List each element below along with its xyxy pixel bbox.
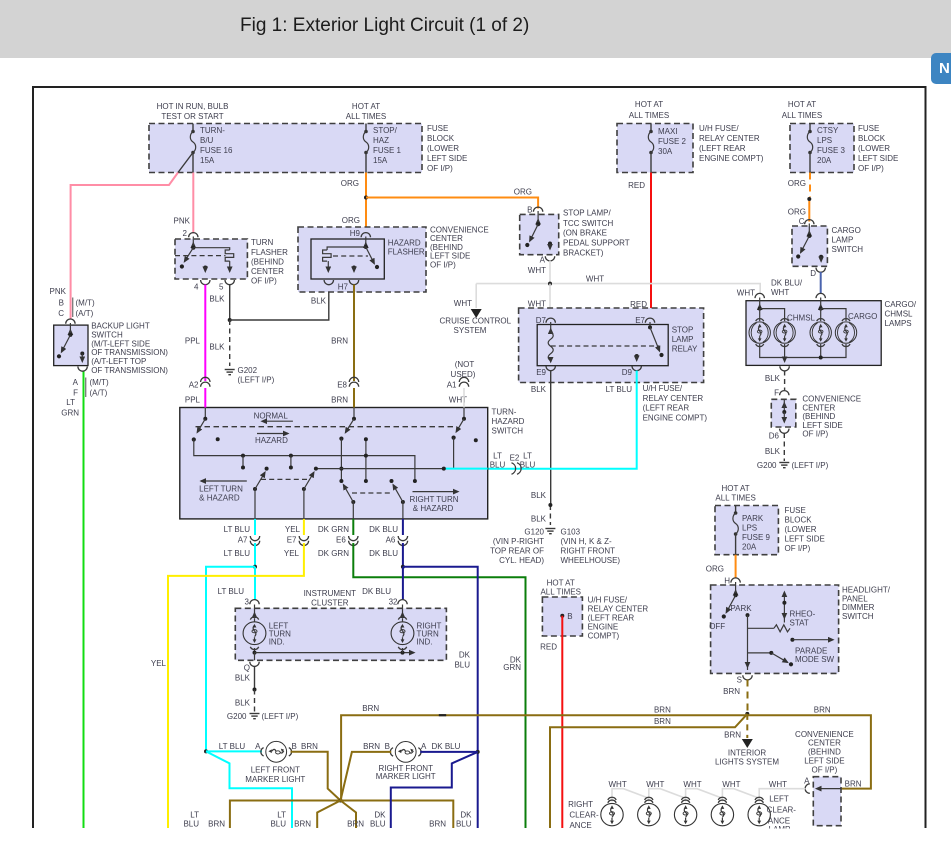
svg-text:30A: 30A <box>658 147 673 156</box>
svg-text:S: S <box>737 676 742 685</box>
svg-text:F: F <box>73 389 78 398</box>
svg-text:H7: H7 <box>338 283 349 292</box>
svg-text:(M/T): (M/T) <box>76 298 95 307</box>
svg-text:PNK: PNK <box>50 287 67 296</box>
wire BLK turn flasher pin5 down <box>209 285 229 321</box>
svg-text:SWITCH: SWITCH <box>842 612 874 621</box>
wire RED maxi fuse to E7 <box>628 173 651 319</box>
fuse block CTSY LPS FUSE 3 20A <box>782 100 899 173</box>
svg-text:A: A <box>255 742 261 751</box>
svg-text:CRUISE CONTROL: CRUISE CONTROL <box>440 317 512 326</box>
svg-text:U/H FUSE/: U/H FUSE/ <box>588 595 628 604</box>
svg-text:BRN: BRN <box>363 742 380 751</box>
svg-text:LT: LT <box>190 811 199 820</box>
svg-text:E2: E2 <box>510 454 520 463</box>
svg-text:FUSE 9: FUSE 9 <box>742 533 771 542</box>
svg-text:ALL TIMES: ALL TIMES <box>346 112 386 121</box>
svg-text:BLK: BLK <box>235 698 251 707</box>
svg-text:CENTER: CENTER <box>251 267 284 276</box>
svg-text:CARGO/: CARGO/ <box>885 300 917 309</box>
wire BRN S to interior lights junction <box>723 680 747 712</box>
fuse block (lower left side of I/P) <box>149 102 467 173</box>
wire BRN hazard flasher to E8 <box>331 285 354 382</box>
wire DK BLU branch to bottom <box>391 752 478 828</box>
svg-text:U/H FUSE/: U/H FUSE/ <box>643 384 683 393</box>
node BRN junction <box>745 712 749 716</box>
svg-text:INSTRUMENT: INSTRUMENT <box>304 589 357 598</box>
svg-text:E7: E7 <box>635 316 645 325</box>
wire LT BLU D9 to E2 to switch <box>488 371 637 469</box>
svg-text:CARGO: CARGO <box>848 312 877 321</box>
convenience center (behind left side of I/P) <box>769 389 861 441</box>
svg-text:WHT: WHT <box>586 275 604 284</box>
node ORG dot <box>807 197 811 201</box>
svg-text:BLU: BLU <box>490 461 506 470</box>
svg-text:CLEAR-: CLEAR- <box>767 805 797 814</box>
bottom wire labels <box>183 811 472 829</box>
wire BRN bus right to left clearance lamp A <box>747 706 871 789</box>
svg-text:YEL: YEL <box>284 549 300 558</box>
svg-text:OF I/P): OF I/P) <box>427 164 453 173</box>
svg-text:LT BLU: LT BLU <box>224 549 251 558</box>
svg-text:PPL: PPL <box>185 396 201 405</box>
svg-text:H: H <box>724 576 730 585</box>
lamp right front marker light <box>363 742 461 781</box>
wire WHT bus to stop lamp relay D7 <box>528 284 550 318</box>
svg-text:FUSE 2: FUSE 2 <box>658 137 687 146</box>
wire WHT clearance lamp bus <box>608 780 805 802</box>
svg-text:IND.: IND. <box>269 638 285 647</box>
svg-text:F: F <box>774 389 779 398</box>
svg-text:BRN: BRN <box>814 706 831 715</box>
wire DK BLU A6 down <box>402 543 404 567</box>
svg-text:HAZARD: HAZARD <box>255 436 288 445</box>
pin 4 <box>201 280 210 285</box>
svg-text:SWITCH: SWITCH <box>91 330 123 339</box>
svg-text:OF I/P): OF I/P) <box>430 260 456 269</box>
connector E8 <box>331 377 359 407</box>
svg-text:BRN: BRN <box>724 730 741 739</box>
svg-text:B: B <box>527 206 532 215</box>
wire WHT TCC switch A to bus <box>528 261 550 284</box>
U/H fuse/relay center B terminal <box>540 579 648 641</box>
svg-text:LEFT SIDE: LEFT SIDE <box>785 535 825 544</box>
wire ORG park fuse to H <box>706 555 736 578</box>
svg-text:20A: 20A <box>817 156 832 165</box>
svg-text:BRN: BRN <box>208 819 225 828</box>
svg-text:D6: D6 <box>769 432 780 441</box>
wire RED B down <box>540 616 562 828</box>
svg-text:WHT: WHT <box>528 300 546 309</box>
svg-text:B: B <box>385 742 390 751</box>
wire DK BLU/WHT cargo switch to lamps <box>771 272 821 297</box>
svg-text:LPS: LPS <box>742 524 757 533</box>
wire PNK fuse16 to backup light switch <box>71 173 178 319</box>
svg-text:RELAY CENTER: RELAY CENTER <box>588 604 649 613</box>
svg-text:BRN: BRN <box>654 717 671 726</box>
svg-text:LEFT TURN: LEFT TURN <box>199 485 243 494</box>
svg-text:(VIN H, K & Z-: (VIN H, K & Z- <box>561 537 612 546</box>
turn flasher <box>175 229 288 292</box>
svg-text:Q: Q <box>244 664 250 673</box>
svg-text:MARKER LIGHT: MARKER LIGHT <box>245 775 305 784</box>
svg-text:BLK: BLK <box>235 673 251 682</box>
svg-text:HAZ: HAZ <box>373 136 389 145</box>
svg-text:ENGINE: ENGINE <box>588 623 619 632</box>
bottom clip <box>0 829 951 841</box>
svg-text:G200: G200 <box>757 461 777 470</box>
svg-text:RELAY CENTER: RELAY CENTER <box>699 134 760 143</box>
svg-text:E6: E6 <box>336 536 346 545</box>
svg-text:LEFT SIDE: LEFT SIDE <box>427 154 467 163</box>
wire ORG ctsy fuse to cargo lamp switch <box>788 173 810 222</box>
svg-text:DK GRN: DK GRN <box>318 525 349 534</box>
svg-text:(LEFT I/P): (LEFT I/P) <box>238 376 275 385</box>
svg-text:PARK: PARK <box>742 514 764 523</box>
backup light switch <box>50 287 169 398</box>
svg-text:OF I/P): OF I/P) <box>812 765 838 774</box>
svg-text:CTSY: CTSY <box>817 126 839 135</box>
svg-text:(BEHIND: (BEHIND <box>802 412 835 421</box>
svg-text:BRACKET): BRACKET) <box>563 249 604 258</box>
wire BRN lower feed <box>550 714 747 828</box>
svg-text:ORG: ORG <box>788 179 806 188</box>
svg-text:BLU: BLU <box>520 461 536 470</box>
connector A6 <box>369 519 408 558</box>
svg-text:ALL TIMES: ALL TIMES <box>540 588 580 597</box>
svg-text:OF TRANSMISSION): OF TRANSMISSION) <box>91 348 168 357</box>
svg-text:WHT: WHT <box>683 780 701 789</box>
svg-text:CLEAR-: CLEAR- <box>569 811 599 820</box>
U/H fuse/relay center MAXI FUSE 2 30A <box>617 100 764 173</box>
svg-text:RED: RED <box>628 181 645 190</box>
wire DK BLU right marker A to vertical <box>420 751 478 753</box>
svg-text:BRN: BRN <box>347 819 364 828</box>
svg-text:ORG: ORG <box>706 564 724 573</box>
svg-text:BLK: BLK <box>209 295 225 304</box>
svg-text:ENGINE COMPT): ENGINE COMPT) <box>699 154 764 163</box>
svg-text:BRN: BRN <box>723 687 740 696</box>
svg-text:(LOWER: (LOWER <box>427 144 459 153</box>
svg-text:LPS: LPS <box>817 136 832 145</box>
svg-text:TURN: TURN <box>251 238 273 247</box>
wire BLK E9 to grounds <box>531 371 551 526</box>
node ORG junction <box>364 196 368 200</box>
svg-text:RELAY CENTER: RELAY CENTER <box>643 394 704 403</box>
fuse block PARK LPS FUSE 9 20A <box>715 484 825 555</box>
svg-text:RED: RED <box>540 642 557 651</box>
svg-text:WHT: WHT <box>771 288 789 297</box>
svg-text:ALL TIMES: ALL TIMES <box>715 494 755 503</box>
wire BRN horizontal through junction <box>230 801 453 829</box>
svg-text:G103: G103 <box>561 528 581 537</box>
wire LT BLU inside switch <box>444 468 488 470</box>
svg-text:USED): USED) <box>451 370 476 379</box>
svg-text:FUSE 1: FUSE 1 <box>373 146 402 155</box>
svg-text:FUSE 3: FUSE 3 <box>817 146 846 155</box>
wire PNK fuse16 to turn flasher pin 2 <box>174 173 194 234</box>
svg-text:WHEELHOUSE): WHEELHOUSE) <box>561 556 621 565</box>
svg-text:CONVENIENCE: CONVENIENCE <box>802 395 861 404</box>
svg-text:GRN: GRN <box>503 663 521 672</box>
svg-text:D: D <box>810 269 816 278</box>
svg-text:B: B <box>567 612 572 621</box>
stop lamp relay <box>519 308 708 422</box>
svg-text:DK GRN: DK GRN <box>318 549 349 558</box>
wire BRN left marker B to junction <box>291 752 341 801</box>
svg-text:CENTER: CENTER <box>430 234 463 243</box>
svg-text:E8: E8 <box>337 381 347 390</box>
svg-text:DK BLU/: DK BLU/ <box>771 279 803 288</box>
svg-text:OF I/P): OF I/P) <box>785 544 811 553</box>
svg-text:HAZARD: HAZARD <box>492 417 525 426</box>
svg-text:SYSTEM: SYSTEM <box>454 326 487 335</box>
svg-text:HOT AT: HOT AT <box>788 100 816 109</box>
svg-text:G202: G202 <box>238 366 258 375</box>
svg-text:E7: E7 <box>287 536 297 545</box>
svg-text:WHT: WHT <box>608 780 626 789</box>
svg-text:LEFT SIDE: LEFT SIDE <box>858 154 898 163</box>
wire BLK hazard flasher H7 to junction <box>230 285 329 321</box>
svg-text:CARGO: CARGO <box>832 226 861 235</box>
headlight/panel dimmer switch <box>709 576 891 684</box>
svg-text:YEL: YEL <box>151 659 167 668</box>
svg-text:BRN: BRN <box>654 706 671 715</box>
node DK BLU junction <box>401 565 405 569</box>
wire WHT to cruise control system <box>440 284 512 335</box>
svg-text:LAMPS: LAMPS <box>885 319 912 328</box>
svg-text:LAMP: LAMP <box>832 236 854 245</box>
svg-text:BRN: BRN <box>294 819 311 828</box>
svg-text:FLASHER: FLASHER <box>251 248 288 257</box>
fuse STOP/HAZ FUSE 1 15A <box>363 124 401 173</box>
svg-text:BLU: BLU <box>370 819 386 828</box>
svg-text:DIMMER: DIMMER <box>842 603 875 612</box>
connector E2 <box>490 452 536 475</box>
svg-text:D7: D7 <box>536 316 547 325</box>
svg-text:LEFT SIDE: LEFT SIDE <box>802 421 842 430</box>
ground G200 (left I/P) <box>227 712 299 721</box>
svg-text:BRN: BRN <box>331 337 348 346</box>
svg-text:ORG: ORG <box>342 216 360 225</box>
ground G202 (left I/P) <box>225 366 275 385</box>
svg-text:LT BLU: LT BLU <box>606 385 633 394</box>
svg-text:(LOWER: (LOWER <box>785 525 817 534</box>
svg-text:HOT AT: HOT AT <box>635 100 663 109</box>
node BRN X junction <box>339 799 343 803</box>
svg-text:(A/T): (A/T) <box>76 309 94 318</box>
svg-text:HOT AT: HOT AT <box>722 484 750 493</box>
svg-text:DK: DK <box>374 811 386 820</box>
svg-text:FUSE 16: FUSE 16 <box>200 146 233 155</box>
svg-text:A: A <box>540 256 546 265</box>
wire LT BLU to left front marker A <box>206 742 262 751</box>
wire DK BLU to cluster pin 32 <box>362 567 403 600</box>
svg-text:FUSE: FUSE <box>427 124 448 133</box>
node WHT junction <box>548 282 552 286</box>
svg-text:TEST OR START: TEST OR START <box>161 112 223 121</box>
svg-text:FUSE: FUSE <box>785 506 806 515</box>
svg-text:LEFT SIDE: LEFT SIDE <box>430 252 470 261</box>
svg-text:(LEFT I/P): (LEFT I/P) <box>792 461 829 470</box>
svg-text:DK BLU: DK BLU <box>369 525 398 534</box>
wire LT BLU A7 down <box>254 543 256 567</box>
svg-text:RIGHT: RIGHT <box>568 800 593 809</box>
svg-text:LEFT: LEFT <box>769 795 789 804</box>
svg-text:DK: DK <box>460 811 472 820</box>
connector A1 (not used) <box>447 360 476 408</box>
svg-text:WHT: WHT <box>722 780 740 789</box>
svg-text:(BEHIND: (BEHIND <box>430 243 463 252</box>
svg-text:RIGHT FRONT: RIGHT FRONT <box>561 547 616 556</box>
svg-text:CYL. HEAD): CYL. HEAD) <box>499 556 544 565</box>
svg-text:LIGHTS SYSTEM: LIGHTS SYSTEM <box>715 758 779 767</box>
svg-text:(LEFT REAR: (LEFT REAR <box>588 613 635 622</box>
turn-hazard switch <box>180 408 525 519</box>
svg-text:BLOCK: BLOCK <box>858 134 886 143</box>
svg-text:COMPT): COMPT) <box>588 631 620 640</box>
lamp CARGO 1 <box>810 319 831 347</box>
convenience center label (bottom right) <box>795 730 854 775</box>
svg-text:IND.: IND. <box>417 638 433 647</box>
svg-text:B/U: B/U <box>200 136 214 145</box>
stop lamp/TCC switch <box>520 206 630 265</box>
pin H7 <box>324 280 333 285</box>
ground G200 (left I/P) right <box>757 461 829 470</box>
svg-text:LT: LT <box>277 811 286 820</box>
svg-text:G200: G200 <box>227 712 247 721</box>
pin 5 <box>225 280 234 285</box>
svg-text:BACKUP LIGHT: BACKUP LIGHT <box>91 322 150 331</box>
svg-text:CHMSL: CHMSL <box>787 314 816 323</box>
svg-text:U/H FUSE/: U/H FUSE/ <box>699 124 739 133</box>
turn-hazard switch internals <box>192 408 488 519</box>
connector A2 <box>185 377 210 407</box>
svg-text:OFF: OFF <box>709 622 725 631</box>
svg-text:A2: A2 <box>189 381 199 390</box>
wire BRN diagonals down <box>317 801 340 829</box>
svg-text:15A: 15A <box>373 156 388 165</box>
svg-text:LAMP: LAMP <box>672 335 694 344</box>
svg-text:PEDAL SUPPORT: PEDAL SUPPORT <box>563 239 630 248</box>
svg-text:PNK: PNK <box>174 217 191 226</box>
svg-text:BLK: BLK <box>531 491 547 500</box>
svg-text:BLU: BLU <box>454 661 470 670</box>
svg-text:32: 32 <box>389 598 398 607</box>
wire BLK D6 to G200 <box>783 433 785 461</box>
lamp right clearance 3 <box>674 797 696 826</box>
svg-text:TURN-: TURN- <box>492 408 517 417</box>
svg-text:ORG: ORG <box>788 208 806 217</box>
svg-text:SWITCH: SWITCH <box>832 245 864 254</box>
svg-text:H9: H9 <box>350 229 361 238</box>
svg-text:STOP/: STOP/ <box>373 126 398 135</box>
svg-text:FLASHER: FLASHER <box>388 248 425 257</box>
ground G120 / G103 <box>490 528 620 566</box>
svg-text:ORG: ORG <box>514 188 532 197</box>
wire BLK cluster Q to G200 <box>235 666 257 712</box>
svg-text:TOP REAR OF: TOP REAR OF <box>490 547 544 556</box>
svg-text:BRN: BRN <box>331 396 348 405</box>
svg-text:LEFT SIDE: LEFT SIDE <box>804 756 844 765</box>
wire WHT bus <box>476 275 760 298</box>
svg-text:PANEL: PANEL <box>842 594 868 603</box>
svg-text:PARK: PARK <box>730 604 752 613</box>
svg-text:A6: A6 <box>386 536 396 545</box>
svg-text:OF TRANSMISSION): OF TRANSMISSION) <box>91 366 168 375</box>
node BLK junction <box>228 318 232 322</box>
lamp right clearance 1 <box>601 797 623 826</box>
wire LT BLU branch to left side <box>206 567 255 752</box>
svg-text:(LOWER: (LOWER <box>858 144 890 153</box>
wire DK BLU branch right run <box>403 567 478 828</box>
svg-text:4: 4 <box>194 283 199 292</box>
svg-text:(A/T-LEFT TOP: (A/T-LEFT TOP <box>91 357 146 366</box>
svg-text:(BEHIND: (BEHIND <box>808 748 841 757</box>
cargo/chmsl lamps <box>746 293 917 371</box>
svg-text:A7: A7 <box>238 536 248 545</box>
svg-text:(NOT: (NOT <box>455 360 475 369</box>
node LT BLU marker junction <box>204 749 208 753</box>
svg-text:CENTER: CENTER <box>802 403 835 412</box>
svg-text:HOT AT: HOT AT <box>352 102 380 111</box>
svg-text:15A: 15A <box>200 156 215 165</box>
svg-text:C: C <box>58 309 64 318</box>
svg-text:STOP LAMP/: STOP LAMP/ <box>563 209 612 218</box>
svg-text:(LEFT REAR: (LEFT REAR <box>643 404 690 413</box>
svg-text:HEADLIGHT/: HEADLIGHT/ <box>842 586 891 595</box>
svg-text:TCC SWITCH: TCC SWITCH <box>563 219 613 228</box>
svg-text:RHEO-: RHEO- <box>790 609 816 618</box>
svg-text:CENTER: CENTER <box>808 739 841 748</box>
connector E6 <box>318 519 358 558</box>
svg-text:CONVENIENCE: CONVENIENCE <box>795 730 854 739</box>
svg-text:(M/T): (M/T) <box>90 378 109 387</box>
svg-text:WHT: WHT <box>769 780 787 789</box>
wire LT BLU branch down-right <box>206 751 292 828</box>
svg-text:BLK: BLK <box>765 374 781 383</box>
svg-text:2: 2 <box>183 229 188 238</box>
svg-text:GRN: GRN <box>61 409 79 418</box>
svg-text:LEFT FRONT: LEFT FRONT <box>251 765 300 774</box>
svg-text:WHT: WHT <box>528 266 546 275</box>
svg-text:(A/T): (A/T) <box>90 389 108 398</box>
svg-text:& HAZARD: & HAZARD <box>199 494 240 503</box>
svg-text:& HAZARD: & HAZARD <box>413 504 454 513</box>
svg-text:BLK: BLK <box>311 297 327 306</box>
svg-text:A: A <box>421 742 427 751</box>
wire ORG junction to stop lamp/TCC switch <box>366 188 538 209</box>
svg-text:ENGINE COMPT): ENGINE COMPT) <box>643 413 708 422</box>
svg-text:C: C <box>799 217 805 226</box>
svg-text:E9: E9 <box>536 368 546 377</box>
svg-text:BLOCK: BLOCK <box>785 516 813 525</box>
svg-text:5: 5 <box>219 283 224 292</box>
svg-text:TURN-: TURN- <box>200 126 225 135</box>
wire YEL E7 to left run <box>151 543 304 828</box>
wire BRN bus upper <box>341 704 747 800</box>
wire PPL turn flasher pin4 to A2 <box>185 285 205 382</box>
svg-text:A1: A1 <box>447 381 457 390</box>
svg-text:INTERIOR: INTERIOR <box>728 749 766 758</box>
svg-text:BLU: BLU <box>456 819 472 828</box>
svg-text:B: B <box>59 298 64 307</box>
wire ORG stop/haz fuse down <box>341 173 366 234</box>
instrument cluster <box>235 589 446 673</box>
wire BLK dashed to G202 <box>229 320 231 366</box>
wire BLK lamps to convenience center F <box>765 371 785 391</box>
svg-text:CLUSTER: CLUSTER <box>311 599 349 608</box>
